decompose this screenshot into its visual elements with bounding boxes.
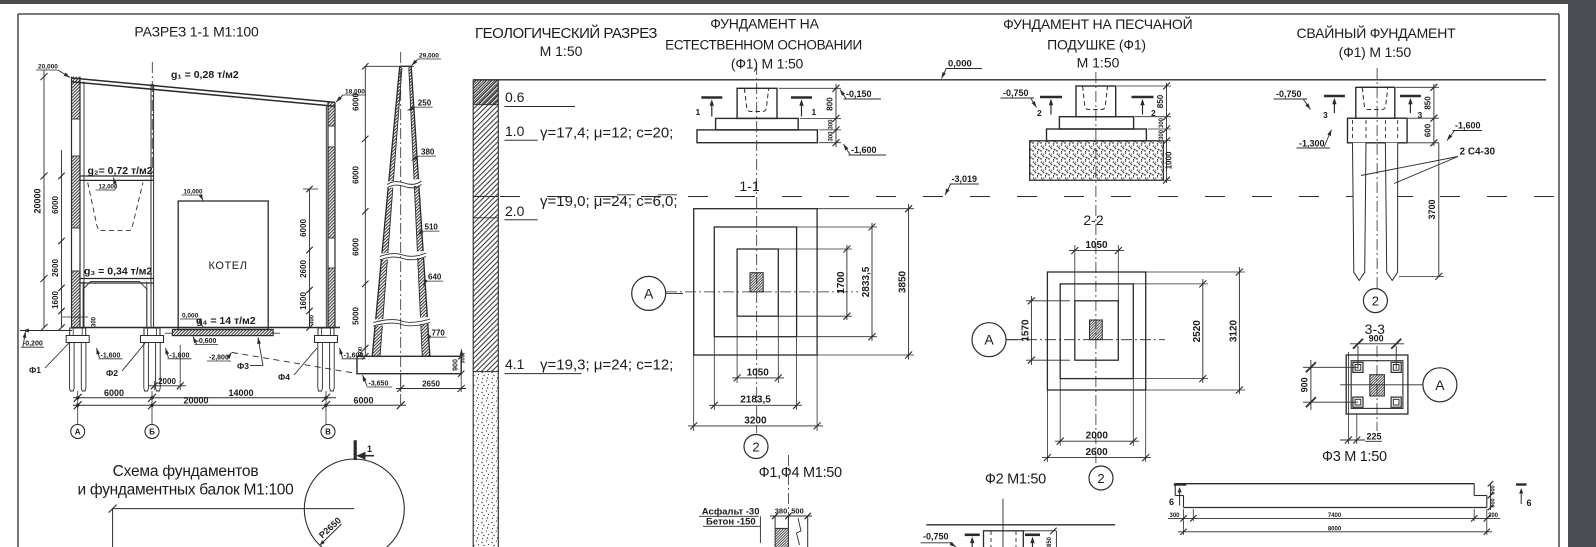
svg-text:γ=17,4; μ=12; c=20;: γ=17,4; μ=12; c=20; [540, 125, 673, 142]
svg-text:1: 1 [367, 444, 372, 454]
svg-text:14000: 14000 [228, 388, 253, 398]
svg-text:-1,300: -1,300 [1299, 138, 1325, 148]
svg-text:1: 1 [696, 107, 701, 117]
svg-text:-1,600: -1,600 [101, 352, 121, 359]
svg-text:2650: 2650 [422, 380, 440, 389]
svg-text:1: 1 [812, 107, 817, 117]
svg-text:g₁ = 0,28 т/м2: g₁ = 0,28 т/м2 [171, 69, 239, 81]
svg-text:РАЗРЕЗ 1-1 М1:100: РАЗРЕЗ 1-1 М1:100 [134, 24, 259, 40]
svg-text:А: А [644, 285, 654, 301]
svg-text:380: 380 [421, 148, 435, 157]
svg-text:6: 6 [1527, 498, 1532, 508]
svg-text:А: А [984, 332, 994, 348]
svg-text:-1,600: -1,600 [170, 352, 190, 359]
svg-text:600: 600 [358, 347, 364, 356]
svg-text:А: А [1435, 377, 1445, 393]
svg-text:2183,5: 2183,5 [740, 395, 771, 406]
svg-text:2833,5: 2833,5 [861, 266, 872, 297]
svg-text:4.1: 4.1 [505, 356, 525, 372]
svg-text:20,000: 20,000 [38, 64, 58, 71]
svg-text:20000: 20000 [183, 395, 208, 405]
svg-text:6000: 6000 [352, 93, 361, 111]
svg-text:Ф3 М 1:50: Ф3 М 1:50 [1322, 449, 1387, 465]
svg-text:800: 800 [826, 97, 835, 111]
svg-text:1.0: 1.0 [505, 123, 525, 139]
svg-text:2000: 2000 [158, 377, 176, 386]
svg-text:7400: 7400 [1328, 513, 1342, 519]
svg-text:850: 850 [1156, 94, 1165, 108]
svg-text:-0,150: -0,150 [846, 89, 872, 99]
svg-text:600: 600 [1491, 498, 1497, 507]
svg-text:g₃ = 0,34 т/м2: g₃ = 0,34 т/м2 [84, 266, 152, 278]
svg-text:900: 900 [1369, 334, 1384, 344]
svg-text:-0,600: -0,600 [197, 338, 217, 345]
svg-text:6000: 6000 [104, 388, 124, 398]
svg-text:300: 300 [1488, 513, 1499, 519]
svg-text:850: 850 [1047, 536, 1053, 547]
svg-text:300: 300 [92, 316, 98, 327]
svg-text:1600: 1600 [299, 292, 308, 310]
svg-text:1000: 1000 [1165, 151, 1174, 169]
svg-text:500: 500 [791, 507, 804, 516]
svg-text:ЕСТЕСТВЕННОМ ОСНОВАНИИ: ЕСТЕСТВЕННОМ ОСНОВАНИИ [665, 37, 862, 52]
svg-text:СВАЙНЫЙ ФУНДАМЕНТ: СВАЙНЫЙ ФУНДАМЕНТ [1297, 24, 1457, 41]
svg-text:-0,750: -0,750 [1276, 89, 1302, 99]
svg-text:-0,750: -0,750 [1003, 88, 1029, 98]
svg-text:2-2: 2-2 [1083, 212, 1103, 228]
svg-text:300: 300 [1169, 513, 1180, 519]
svg-text:2 С4-30: 2 С4-30 [1460, 147, 1496, 158]
svg-text:20000: 20000 [33, 188, 43, 213]
svg-text:2: 2 [1037, 108, 1042, 118]
svg-text:М 1:50: М 1:50 [1077, 55, 1120, 71]
svg-text:2: 2 [1097, 471, 1104, 486]
svg-text:ГЕОЛОГИЧЕСКИЙ РАЗРЕЗ: ГЕОЛОГИЧЕСКИЙ РАЗРЕЗ [475, 24, 657, 42]
svg-text:6000: 6000 [299, 219, 308, 237]
svg-text:А: А [75, 428, 81, 437]
svg-text:Ф1: Ф1 [29, 365, 41, 375]
svg-text:М 1:50: М 1:50 [540, 43, 583, 59]
svg-text:6000: 6000 [353, 395, 373, 405]
svg-text:0,000: 0,000 [182, 313, 199, 320]
svg-text:770: 770 [432, 329, 446, 338]
svg-text:-0,200: -0,200 [23, 341, 43, 348]
svg-text:640: 640 [428, 273, 442, 282]
svg-text:Ф4: Ф4 [278, 372, 290, 382]
svg-text:γ=19,3; μ=24; c=12;: γ=19,3; μ=24; c=12; [540, 357, 673, 374]
svg-text:2000: 2000 [1086, 431, 1109, 442]
svg-text:и фундаментных балок М1:100: и фундаментных балок М1:100 [78, 482, 295, 499]
svg-text:g₄ = 14 т/м2: g₄ = 14 т/м2 [196, 315, 256, 327]
svg-text:-3,019: -3,019 [952, 174, 978, 184]
svg-text:1570: 1570 [1020, 319, 1031, 342]
svg-text:2.0: 2.0 [505, 203, 525, 219]
svg-text:300: 300 [829, 119, 835, 130]
svg-text:5000: 5000 [352, 307, 361, 325]
svg-text:900: 900 [1299, 377, 1309, 392]
svg-text:2600: 2600 [1085, 447, 1108, 458]
svg-text:1600: 1600 [51, 291, 60, 309]
svg-text:2: 2 [1372, 294, 1379, 309]
svg-text:(Ф1) М 1:50: (Ф1) М 1:50 [731, 55, 804, 71]
svg-text:850: 850 [1423, 96, 1432, 110]
svg-text:0,000: 0,000 [948, 59, 972, 70]
svg-text:3850: 3850 [898, 270, 909, 293]
svg-text:-1,600: -1,600 [851, 145, 877, 155]
svg-text:2520: 2520 [1192, 320, 1203, 343]
svg-text:380: 380 [775, 507, 788, 516]
svg-text:900: 900 [453, 359, 460, 371]
svg-text:3700: 3700 [1427, 199, 1437, 219]
svg-text:-0,750: -0,750 [923, 532, 949, 542]
svg-text:1-1: 1-1 [739, 178, 759, 194]
svg-text:3200: 3200 [744, 415, 767, 426]
svg-text:1700: 1700 [836, 271, 847, 294]
svg-text:2600: 2600 [299, 260, 308, 278]
svg-text:Б: Б [149, 428, 155, 437]
svg-text:Ф1,Ф4 М1:50: Ф1,Ф4 М1:50 [759, 465, 842, 481]
svg-text:10,000: 10,000 [184, 189, 203, 196]
svg-text:γ=19,0; μ=24; c=6,0;: γ=19,0; μ=24; c=6,0; [540, 193, 678, 210]
svg-text:1050: 1050 [747, 368, 770, 379]
svg-text:ФУНДАМЕНТ НА ПЕСЧАНОЙ: ФУНДАМЕНТ НА ПЕСЧАНОЙ [1003, 15, 1192, 32]
svg-text:250: 250 [418, 99, 432, 108]
svg-text:ФУНДАМЕНТ НА: ФУНДАМЕНТ НА [710, 16, 819, 32]
svg-text:225: 225 [1367, 432, 1382, 442]
svg-text:300: 300 [1159, 117, 1165, 128]
svg-text:Ф2: Ф2 [106, 368, 118, 378]
svg-text:g₂= 0,72 т/м2: g₂= 0,72 т/м2 [88, 165, 153, 177]
svg-text:Ф2 М1:50: Ф2 М1:50 [985, 472, 1046, 488]
svg-text:2600: 2600 [51, 259, 60, 277]
svg-text:300: 300 [1159, 129, 1165, 140]
svg-text:29,000: 29,000 [419, 53, 439, 60]
svg-text:600: 600 [1491, 485, 1497, 494]
svg-text:510: 510 [425, 223, 439, 232]
svg-text:В: В [325, 428, 331, 437]
svg-text:Схема фундаментов: Схема фундаментов [113, 463, 259, 480]
svg-text:-2,800: -2,800 [209, 354, 229, 361]
svg-text:6: 6 [1169, 497, 1174, 507]
svg-text:3120: 3120 [1228, 319, 1239, 342]
svg-text:2: 2 [752, 440, 759, 455]
svg-text:0.6: 0.6 [505, 89, 525, 105]
svg-text:8000: 8000 [1328, 526, 1342, 532]
svg-text:6000: 6000 [352, 166, 361, 184]
svg-text:(Ф1) М 1:50: (Ф1) М 1:50 [1339, 44, 1412, 60]
svg-text:300: 300 [310, 314, 316, 325]
svg-text:6000: 6000 [51, 196, 60, 214]
svg-text:600: 600 [1423, 123, 1432, 137]
svg-text:КОТЕЛ: КОТЕЛ [208, 260, 247, 272]
svg-text:-1,600: -1,600 [1455, 121, 1481, 131]
svg-text:300: 300 [829, 131, 835, 142]
svg-text:3: 3 [1323, 110, 1328, 120]
svg-text:ПОДУШКЕ (Ф1): ПОДУШКЕ (Ф1) [1047, 37, 1146, 53]
svg-text:6000: 6000 [352, 238, 361, 256]
svg-text:1050: 1050 [1085, 240, 1108, 251]
svg-text:Ф3: Ф3 [237, 361, 249, 371]
svg-text:-3,650: -3,650 [369, 381, 389, 388]
